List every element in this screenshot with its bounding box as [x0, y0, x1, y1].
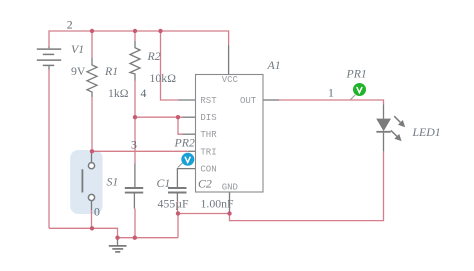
wire bottom left rail node 0 [49, 228, 118, 237]
wire DIS horizontal [135, 116, 183, 118]
IC pin stub OUT [263, 99, 279, 101]
IC pin stub RST [179, 99, 196, 101]
svg-text:10kΩ: 10kΩ [150, 71, 177, 85]
svg-text:VCC: VCC [222, 75, 239, 85]
junction DIS/THR [176, 115, 180, 119]
svg-text:1: 1 [328, 86, 334, 100]
svg-text:PR2: PR2 [174, 136, 195, 150]
svg-text:455µF: 455µF [158, 197, 189, 211]
junction ground tap [115, 236, 119, 240]
wire gnd link [178, 213, 230, 215]
svg-text:R2: R2 [147, 49, 161, 63]
junction node2-R2 [133, 29, 137, 33]
probe PR2 [178, 153, 195, 168]
op-amp timer U/A1 box [196, 75, 264, 193]
svg-text:0: 0 [94, 205, 100, 219]
wire LED return [230, 152, 384, 221]
svg-text:4: 4 [141, 86, 147, 100]
wire R1 bottom to node 3 [91, 97, 93, 151]
wire C2 ground riser [177, 214, 179, 238]
svg-text:C1: C1 [157, 176, 171, 190]
wire OUT to LED [279, 100, 384, 105]
junction GND pin [227, 211, 231, 215]
battery V1 [37, 47, 61, 70]
svg-text:DIS: DIS [200, 113, 216, 123]
svg-text:9V: 9V [71, 64, 86, 78]
wire RST riser [161, 30, 179, 100]
svg-text:THR: THR [200, 130, 217, 140]
capacitor C1 [125, 164, 143, 209]
resistor R1 [87, 58, 97, 97]
IC pin stub CON [177, 169, 195, 187]
junction C2 gnd [176, 211, 180, 215]
wire GND pin lower [229, 213, 231, 216]
wire node 3 horizontal to TRI [92, 150, 189, 152]
wire bottom right rail [118, 237, 179, 239]
svg-text:C2: C2 [198, 177, 212, 191]
wire C1 bottom [134, 209, 136, 238]
svg-text:1kΩ: 1kΩ [108, 86, 129, 100]
IC pin stub DIS [183, 116, 196, 118]
svg-text:PR1: PR1 [346, 67, 367, 81]
probe PR1 [351, 83, 367, 100]
switch S1 [82, 153, 94, 210]
svg-text:CON: CON [200, 165, 216, 175]
IC pin stub GND [229, 192, 231, 214]
wire R2 bottom node 4 [134, 81, 136, 164]
IC pin stub VCC [228, 45, 230, 75]
wire C2 lower [177, 201, 179, 214]
IC pin stub TRI [189, 150, 196, 152]
svg-text:TRI: TRI [200, 147, 216, 157]
junction S1 bottom rail [90, 226, 94, 230]
junction node2-R1 [90, 29, 94, 33]
junction node4 R2/DIS [133, 115, 137, 119]
wire battery bottom lead [48, 70, 50, 229]
svg-text:GND: GND [222, 183, 238, 193]
capacitor C2 [168, 188, 187, 201]
wire THR jog [178, 117, 183, 134]
wire R2 top [134, 30, 136, 41]
wire battery top lead [48, 30, 50, 46]
svg-text:S1: S1 [107, 175, 119, 189]
svg-text:3: 3 [131, 137, 137, 151]
resistor R2 [130, 41, 140, 81]
wire switch bottom [91, 210, 93, 228]
wire VCC riser [228, 30, 230, 45]
LED LED1 [376, 105, 405, 152]
wire R1 top [91, 30, 93, 58]
svg-text:1.00nF: 1.00nF [201, 197, 235, 211]
svg-text:RST: RST [200, 96, 217, 106]
junction node3 R1/S1/TRI [90, 149, 94, 153]
ground [109, 238, 127, 252]
wire top rail node 2 [49, 30, 229, 32]
junction C1 bottom rail [133, 236, 137, 240]
svg-text:OUT: OUT [240, 96, 257, 106]
svg-text:A1: A1 [267, 58, 281, 72]
svg-text:2: 2 [67, 18, 73, 32]
junction node2-RST [158, 29, 162, 33]
switch S1 background [70, 150, 102, 214]
svg-text:R1: R1 [104, 64, 118, 78]
svg-text:V1: V1 [71, 42, 84, 56]
svg-text:LED1: LED1 [412, 125, 441, 139]
IC pin stub THR [183, 133, 196, 135]
